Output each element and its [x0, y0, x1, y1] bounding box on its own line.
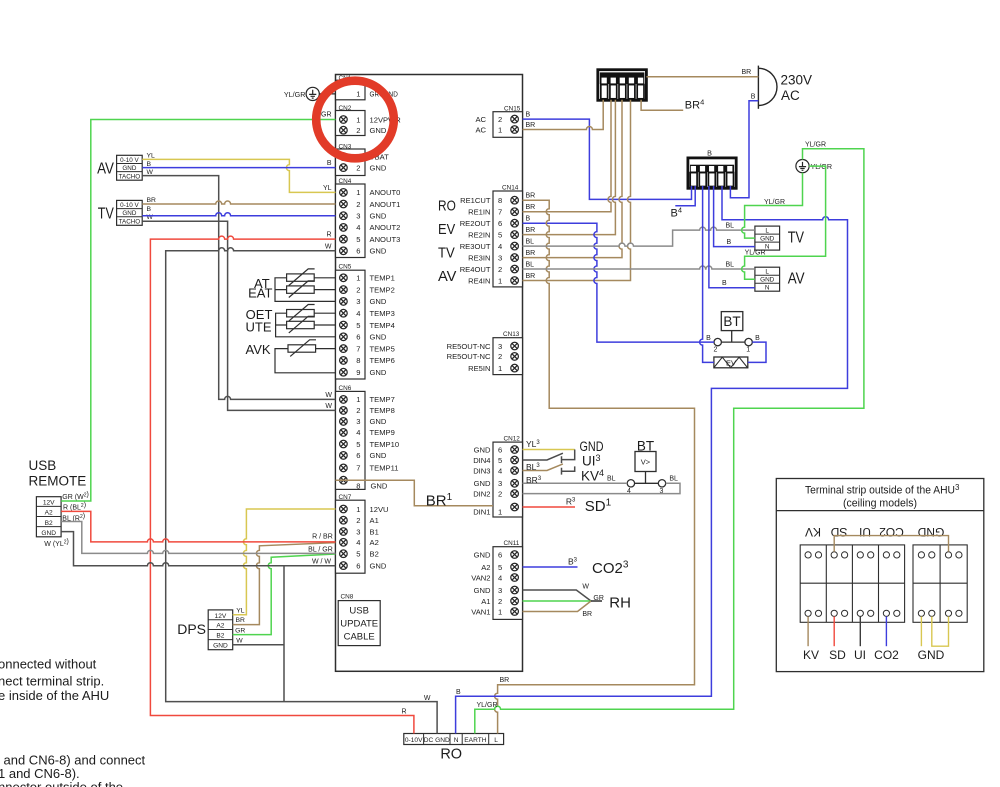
svg-text:DIN4: DIN4 — [473, 456, 490, 465]
wire BR1 CN6.8 to CN12 DIN1 — [336, 480, 494, 506]
svg-text:W: W — [582, 583, 589, 590]
svg-text:5: 5 — [356, 321, 360, 330]
wire R USB REMOTE A2 to CN7.4 — [61, 511, 335, 542]
230V AC mains source — [758, 66, 812, 109]
svg-text:R: R — [326, 232, 331, 239]
svg-text:GND: GND — [370, 451, 387, 460]
svg-text:8: 8 — [356, 482, 360, 491]
wire BR CN14.5 to block1 t2b — [523, 100, 616, 235]
wire B EV to BT pin1 — [748, 342, 766, 362]
svg-text:B: B — [706, 335, 711, 342]
switch DIN4 blade and UI contact — [523, 450, 575, 464]
svg-text:GND: GND — [474, 479, 491, 488]
svg-text:RO: RO — [440, 747, 462, 763]
wire YL DPS 12V to CN7.1 — [233, 509, 336, 615]
connector CN7 — [336, 494, 389, 573]
svg-text:1: 1 — [356, 89, 360, 98]
svg-text:230V: 230V — [781, 73, 813, 88]
svg-text:2: 2 — [498, 597, 502, 606]
wire W CN4.6 to RO DC GND — [166, 248, 437, 734]
svg-text:AV: AV — [788, 271, 805, 288]
svg-text:CN8: CN8 — [341, 594, 354, 601]
svg-text:7: 7 — [498, 208, 502, 217]
svg-text:0-10 V: 0-10 V — [120, 202, 139, 209]
protective earth symbol YL/GR (top left) — [284, 87, 336, 100]
svg-text:GND: GND — [474, 445, 491, 454]
terminal strip outside of the AHU (ceiling models) — [776, 479, 984, 672]
svg-text:CN12: CN12 — [504, 436, 521, 443]
svg-text:GND: GND — [213, 643, 228, 650]
exhaust fan TV terminal box — [98, 197, 156, 225]
temperature sensor OET — [287, 305, 315, 322]
svg-text:B: B — [147, 206, 152, 213]
svg-text:V>: V> — [641, 458, 651, 467]
svg-text:4: 4 — [356, 223, 360, 232]
wire BR block1 to 230V AC — [646, 76, 758, 78]
svg-text:1: 1 — [498, 276, 502, 285]
wire BR CN14.7 to block1 t2 — [523, 100, 612, 212]
svg-text:EV: EV — [726, 358, 736, 367]
wire R CN4.5 to RO 0-10V — [150, 236, 414, 733]
svg-text:nect terminal strip.: nect terminal strip. — [0, 674, 104, 689]
temperature sensor UTE — [287, 316, 315, 333]
svg-text:2: 2 — [498, 489, 502, 498]
svg-text:GND: GND — [917, 525, 944, 539]
svg-text:2: 2 — [714, 347, 718, 354]
svg-text:YL: YL — [147, 152, 156, 159]
svg-text:0-10V: 0-10V — [405, 737, 423, 744]
temperature sensor AT — [287, 269, 315, 286]
svg-text:A2: A2 — [370, 538, 379, 547]
DPS pressure switch terminal box — [177, 608, 245, 650]
note text block (bottom left) — [0, 657, 146, 787]
svg-text:RE4IN: RE4IN — [468, 276, 490, 285]
svg-text:B2: B2 — [370, 550, 379, 559]
svg-text:GND: GND — [760, 236, 775, 243]
svg-text:TACHO: TACHO — [119, 218, 141, 225]
svg-text:TEMP4: TEMP4 — [370, 321, 395, 330]
supply fan AV terminal box — [97, 152, 155, 180]
svg-text:GND: GND — [122, 165, 136, 172]
wire B block2 t2 to EV heater — [700, 186, 714, 362]
wire BR CN14.1 to block1 t4 — [523, 100, 631, 281]
supply fan AV connection box (right) — [755, 267, 805, 292]
wire stub KV — [807, 616, 809, 646]
svg-text:2: 2 — [356, 126, 360, 135]
temperature sensor AVK — [288, 340, 316, 357]
svg-text:GND: GND — [122, 210, 136, 217]
svg-text:3: 3 — [955, 483, 960, 492]
svg-text:BR: BR — [147, 197, 157, 204]
svg-text:5: 5 — [356, 235, 360, 244]
connector CN13 — [447, 331, 523, 375]
svg-text:TEMP8: TEMP8 — [370, 406, 395, 415]
sensor AT/EAT common wiring — [275, 278, 336, 302]
temperature sensor EAT — [287, 281, 315, 298]
svg-text:(ceiling models): (ceiling models) — [843, 498, 917, 510]
svg-text:BL: BL — [607, 476, 616, 483]
svg-text:BR: BR — [236, 617, 246, 624]
mains terminal block 1 (top) — [598, 70, 647, 101]
svg-text:BR: BR — [742, 69, 752, 76]
svg-text:3: 3 — [356, 297, 360, 306]
svg-text:RE5OUT-NC: RE5OUT-NC — [447, 352, 491, 361]
svg-text:RO: RO — [438, 197, 456, 214]
svg-text:GND: GND — [918, 648, 945, 662]
svg-text:CN13: CN13 — [503, 331, 520, 338]
svg-text:BL / GR: BL / GR — [308, 547, 333, 554]
svg-text:B: B — [327, 160, 332, 167]
svg-text:VAN2: VAN2 — [471, 573, 490, 582]
svg-text:BR: BR — [526, 273, 536, 280]
svg-text:2: 2 — [356, 200, 360, 209]
svg-text:2: 2 — [356, 516, 360, 525]
svg-text:GND: GND — [370, 297, 387, 306]
svg-text:R: R — [401, 709, 406, 716]
svg-text:TEMP3: TEMP3 — [370, 309, 395, 318]
wire YL AV 0-10V to CN4.1 — [142, 159, 335, 192]
exhaust fan TV connection box (right) — [755, 226, 804, 251]
svg-text:GND: GND — [370, 247, 387, 256]
svg-text:RE5OUT-NC: RE5OUT-NC — [447, 342, 491, 351]
wire labels (small) — [308, 69, 826, 716]
svg-text:BR: BR — [526, 250, 536, 257]
svg-text:5: 5 — [498, 563, 502, 572]
svg-text:5: 5 — [498, 230, 502, 239]
svg-text:4: 4 — [356, 538, 360, 547]
svg-text:CN3: CN3 — [339, 144, 352, 151]
wire B block2 t3b to TV N — [714, 186, 755, 247]
wire GR CN11.2 to RH — [523, 600, 592, 602]
svg-text:4: 4 — [356, 309, 360, 318]
svg-text:7: 7 — [356, 464, 360, 473]
svg-text:YL/GR: YL/GR — [477, 702, 498, 709]
wire BR block1 t5 BR4 stub — [641, 100, 683, 111]
svg-text:5: 5 — [498, 456, 502, 465]
jumper wire GND-GND — [932, 616, 949, 646]
svg-text:CN2: CN2 — [339, 105, 352, 112]
connector CN12 — [473, 436, 522, 518]
svg-text:1: 1 — [498, 508, 502, 517]
svg-text:RH: RH — [609, 595, 631, 612]
svg-text:RE1IN: RE1IN — [468, 208, 490, 217]
svg-text:6: 6 — [356, 561, 360, 570]
svg-text:TEMP7: TEMP7 — [370, 395, 395, 404]
svg-text:CN7: CN7 — [339, 494, 352, 501]
svg-text:6: 6 — [356, 333, 360, 342]
svg-text:3: 3 — [498, 342, 502, 351]
svg-text:B: B — [722, 280, 727, 287]
svg-text:BL: BL — [526, 238, 535, 245]
wire R CN12 DIN1 SD stub — [523, 506, 576, 508]
svg-text:1: 1 — [746, 347, 750, 354]
wire BL USB REMOTE B2 to CN7.5 — [61, 522, 335, 554]
svg-text:N: N — [454, 737, 459, 744]
svg-text:A2: A2 — [45, 510, 53, 517]
svg-text:DC GND: DC GND — [424, 737, 450, 744]
svg-text:DIN1: DIN1 — [473, 508, 490, 517]
wire B CN11.5 CO2 stub — [523, 566, 578, 568]
svg-text:AV: AV — [97, 161, 114, 178]
svg-text:2: 2 — [356, 163, 360, 172]
svg-text:GND: GND — [370, 561, 387, 570]
svg-text:2: 2 — [356, 406, 360, 415]
svg-text:BR: BR — [582, 611, 592, 618]
switch DIN3 blade — [523, 464, 563, 471]
svg-text:RE5IN: RE5IN — [468, 364, 490, 373]
svg-text:3: 3 — [498, 253, 502, 262]
svg-text:UPDATE: UPDATE — [340, 619, 378, 630]
svg-text:3: 3 — [498, 479, 502, 488]
svg-text:GR: GR — [235, 627, 245, 634]
svg-text:UI: UI — [859, 525, 871, 539]
svg-text:DPS: DPS — [177, 621, 206, 637]
RO supply terminal box (bottom) — [404, 734, 504, 763]
svg-text:REMOTE: REMOTE — [29, 474, 87, 489]
svg-text:DIN2: DIN2 — [473, 489, 490, 498]
wire BL CN12.2 loop to BT V contact 3 — [523, 483, 681, 493]
svg-text:1: 1 — [498, 364, 502, 373]
wire BR CN11.1 to RH — [523, 601, 592, 612]
svg-text:TACHO: TACHO — [119, 173, 141, 180]
KV contact — [562, 466, 575, 474]
svg-text:4: 4 — [498, 466, 502, 475]
wire BR TV 0-10V to CN4.2 — [142, 201, 335, 204]
svg-text:12V: 12V — [43, 500, 55, 507]
USB REMOTE terminal box — [29, 458, 89, 548]
thermostat BT (overheat) — [706, 312, 760, 354]
svg-text:UTE: UTE — [246, 320, 272, 335]
sensor OET/UTE common wiring — [276, 313, 336, 337]
svg-text:N: N — [765, 285, 770, 292]
svg-text:ANOUT0: ANOUT0 — [370, 188, 401, 197]
svg-text:USB: USB — [349, 606, 369, 617]
svg-text:3: 3 — [498, 586, 502, 595]
wire GR CN2.1 to USB REMOTE 12V — [61, 120, 335, 502]
svg-text:W: W — [325, 403, 332, 410]
svg-text:Terminal strip outside of the: Terminal strip outside of the AHU — [805, 485, 955, 497]
svg-text:CO2: CO2 — [874, 648, 899, 662]
svg-text:8: 8 — [356, 356, 360, 365]
svg-text:GND: GND — [760, 277, 775, 284]
svg-text:BR: BR — [526, 227, 536, 234]
svg-text:KV: KV — [805, 525, 821, 539]
svg-text:CN4: CN4 — [339, 178, 352, 185]
svg-text:BR: BR — [526, 193, 536, 200]
svg-text:4: 4 — [356, 428, 360, 437]
svg-text:A2: A2 — [481, 563, 490, 572]
wire W AV TACHO to CN6.1 — [142, 176, 335, 400]
mains terminal block 2 (B) — [688, 149, 736, 189]
svg-text:TV: TV — [98, 206, 114, 223]
svg-text:4: 4 — [498, 573, 502, 582]
red highlight circle on CN2 — [316, 81, 394, 159]
wire B block2 t5 to 230V AC — [730, 101, 758, 198]
svg-text:RE2IN: RE2IN — [468, 230, 490, 239]
wire W DPS GND tap — [233, 644, 284, 646]
svg-text:CN5: CN5 — [339, 264, 352, 271]
wire BR CN14.3 to block1 t3 — [523, 100, 623, 258]
svg-text:USB: USB — [29, 458, 57, 473]
svg-text:BL: BL — [669, 476, 678, 483]
svg-text:1: 1 — [356, 188, 360, 197]
svg-text:B2: B2 — [216, 633, 224, 640]
svg-text:YL/GR: YL/GR — [805, 142, 826, 149]
svg-text:1: 1 — [356, 395, 360, 404]
svg-text:B: B — [147, 161, 152, 168]
wire BL CN12.3 to BT V contact 4 — [523, 482, 628, 484]
svg-text:BR: BR — [526, 122, 536, 129]
svg-text:RE3OUT: RE3OUT — [460, 242, 491, 251]
connector CN2 — [336, 105, 402, 136]
svg-text:BR: BR — [526, 204, 536, 211]
svg-text:CN6: CN6 — [339, 385, 352, 392]
svg-text:W: W — [325, 243, 332, 250]
svg-text:onnected without: onnected without — [0, 657, 97, 672]
wire YL/GR earth to RO EARTH — [475, 149, 864, 734]
svg-text:BL: BL — [726, 223, 735, 230]
wire stub GND — [920, 616, 922, 646]
svg-text:GR: GR — [593, 595, 604, 602]
wire YL CN12.6 to selector — [523, 449, 575, 451]
svg-text:GND: GND — [370, 333, 387, 342]
svg-text:TEMP5: TEMP5 — [370, 344, 395, 353]
svg-text:YL/GR: YL/GR — [284, 90, 306, 99]
svg-text:YL/GR: YL/GR — [764, 199, 785, 206]
svg-text:4: 4 — [498, 242, 502, 251]
svg-text:GND: GND — [370, 417, 387, 426]
svg-text:CN15: CN15 — [504, 106, 521, 113]
wire B B4 stub — [675, 186, 695, 206]
svg-text:B: B — [526, 216, 531, 223]
svg-text:5: 5 — [356, 440, 360, 449]
svg-text:B2: B2 — [45, 520, 53, 527]
svg-text:6: 6 — [498, 550, 502, 559]
svg-text:CABLE: CABLE — [344, 632, 375, 643]
svg-text:6: 6 — [498, 219, 502, 228]
svg-text:CN14: CN14 — [502, 185, 519, 192]
wire YL/GR earth to AV GND — [742, 166, 826, 279]
svg-text:nnector outside of the: nnector outside of the — [0, 780, 123, 787]
svg-text:2: 2 — [498, 115, 502, 124]
svg-text:BT: BT — [723, 314, 740, 329]
connector CN6 — [336, 385, 400, 491]
svg-text:W: W — [424, 695, 431, 702]
connector CN1 — [336, 75, 399, 100]
relay group labels RO EV TV AV — [438, 197, 457, 285]
svg-text:7: 7 — [356, 344, 360, 353]
wire W TV TACHO to CN6.2 — [142, 221, 335, 410]
svg-text:e inside of the AHU: e inside of the AHU — [0, 688, 109, 703]
svg-text:TEMP10: TEMP10 — [370, 440, 400, 449]
svg-text:UI: UI — [854, 648, 866, 662]
connector CN4 — [336, 178, 401, 258]
svg-text:W: W — [325, 392, 332, 399]
svg-text:1: 1 — [498, 125, 502, 134]
wire B AV GND to CN3.2 — [142, 167, 335, 169]
svg-text:TEMP6: TEMP6 — [370, 356, 395, 365]
svg-text:12V: 12V — [215, 613, 227, 620]
svg-text:RE1CUT: RE1CUT — [460, 196, 491, 205]
svg-text:ANOUT2: ANOUT2 — [370, 223, 401, 232]
svg-text:6: 6 — [498, 445, 502, 454]
svg-text:3: 3 — [356, 212, 360, 221]
svg-text:B1: B1 — [370, 527, 379, 536]
jumper wire SD-GND inside terminal strip — [834, 536, 948, 552]
svg-text:AC: AC — [475, 115, 486, 124]
svg-text:GND: GND — [370, 368, 387, 377]
wire W CN11.3 to RH — [523, 590, 592, 601]
svg-text:EARTH: EARTH — [464, 737, 486, 744]
svg-text:TV: TV — [788, 230, 805, 247]
svg-text:B: B — [755, 335, 760, 342]
svg-text:BR: BR — [500, 677, 510, 684]
svg-text:GND: GND — [370, 163, 387, 172]
wire BR DPS A2 to CN7.4 — [233, 543, 336, 625]
svg-text:2: 2 — [498, 352, 502, 361]
controller board outline — [336, 75, 523, 672]
svg-text:12VU: 12VU — [370, 505, 389, 514]
svg-text:GND: GND — [371, 482, 388, 491]
svg-text:EAT: EAT — [248, 286, 272, 301]
svg-text:BL: BL — [526, 261, 535, 268]
svg-text:R / BR: R / BR — [312, 534, 333, 541]
svg-text:0-10 V: 0-10 V — [120, 157, 139, 164]
svg-text:CN11: CN11 — [504, 540, 520, 547]
connector CN8 USB update cable — [338, 594, 380, 646]
svg-text:B: B — [751, 93, 756, 100]
svg-text:ANOUT1: ANOUT1 — [370, 200, 401, 209]
svg-text:SD: SD — [829, 648, 846, 662]
svg-text:L: L — [765, 228, 769, 235]
connector CN11 — [471, 540, 522, 619]
svg-text:GR: GR — [321, 112, 332, 119]
svg-text:AVK: AVK — [246, 342, 271, 357]
electric heater EV — [714, 357, 748, 368]
svg-text:5: 5 — [356, 550, 360, 559]
svg-text:GND: GND — [474, 586, 491, 595]
svg-text:YL/GR: YL/GR — [745, 249, 766, 256]
svg-text:SD: SD — [830, 525, 847, 539]
wire stub SD — [833, 616, 835, 646]
svg-text:GND: GND — [580, 439, 604, 454]
svg-text:GND: GND — [370, 212, 387, 221]
svg-text:EV: EV — [438, 221, 456, 238]
connector CN3 — [336, 144, 390, 176]
svg-text:TEMP1: TEMP1 — [370, 274, 395, 283]
svg-text:CO2: CO2 — [879, 525, 904, 539]
svg-text:A1: A1 — [370, 516, 379, 525]
svg-text:TEMP2: TEMP2 — [370, 285, 395, 294]
connector CN5 — [336, 264, 395, 380]
svg-text:B: B — [727, 239, 732, 246]
wire GR DPS B2 to CN7.5 — [233, 554, 336, 635]
svg-text:YL: YL — [236, 608, 245, 615]
svg-text:1: 1 — [498, 607, 502, 616]
svg-text:1: 1 — [356, 505, 360, 514]
RH node lead — [591, 600, 602, 602]
protective earth symbol YL/GR (right) — [796, 160, 832, 173]
wire stub UI — [859, 616, 861, 646]
svg-text:VAN1: VAN1 — [471, 607, 490, 616]
svg-text:RE4OUT: RE4OUT — [460, 265, 491, 274]
svg-text:TEMP11: TEMP11 — [370, 464, 399, 473]
svg-text:A2: A2 — [216, 623, 224, 630]
wire B block2 t4 loop to RO N — [456, 186, 848, 734]
svg-text:B: B — [526, 111, 531, 118]
svg-text:3: 3 — [356, 417, 360, 426]
svg-text:DIN3: DIN3 — [473, 466, 490, 475]
